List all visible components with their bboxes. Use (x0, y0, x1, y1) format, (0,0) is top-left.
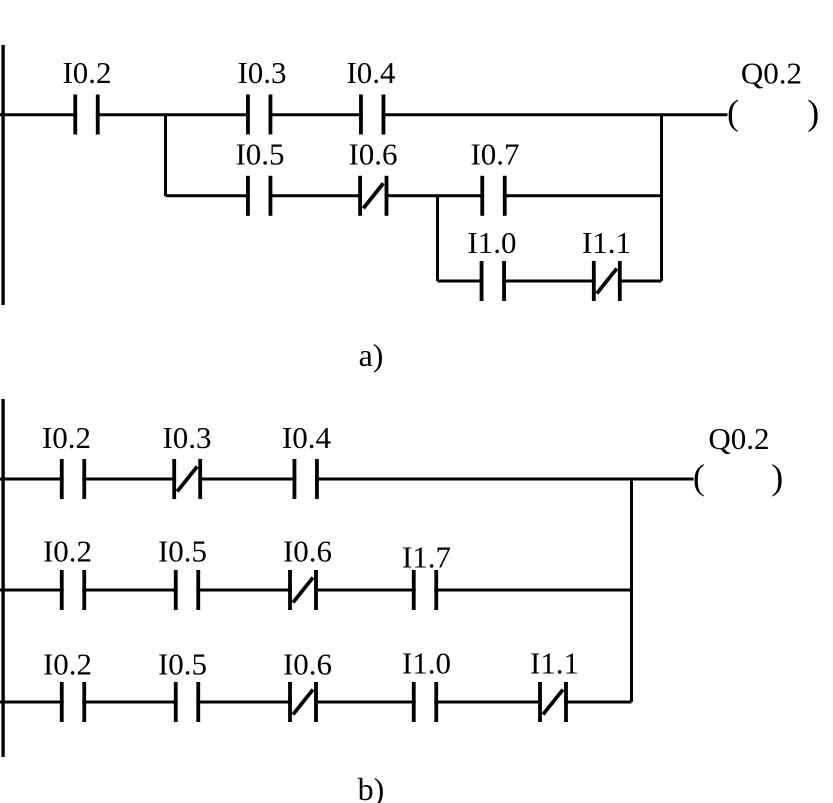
contact I0.2 rung b3 (NO) (60, 682, 86, 722)
svg-text:I0.6: I0.6 (283, 534, 332, 569)
contact I0.4 (NO) (359, 95, 385, 135)
svg-text:I1.1: I1.1 (530, 646, 579, 681)
svg-text:(: ( (727, 92, 739, 132)
wire right branch join (x661.5) (660, 115, 663, 282)
contact I0.6 (NC) (358, 176, 388, 216)
contact I1.1 (NC) (592, 261, 622, 301)
contact I0.2 rung b2 (NO) (60, 570, 86, 610)
svg-text:I0.3: I0.3 (237, 55, 286, 90)
wire branch a2 (166, 194, 662, 197)
svg-text:I0.6: I0.6 (348, 137, 397, 172)
svg-text:Q0.2: Q0.2 (741, 56, 802, 91)
contact I0.5 rung b3 (NO) (174, 682, 200, 722)
contact I1.1 rung b3 (NC) (538, 682, 568, 722)
wire branch a3 (438, 280, 662, 283)
svg-text:I0.7: I0.7 (470, 137, 519, 172)
svg-text:I0.4: I0.4 (346, 55, 396, 90)
contact I1.7 rung b2 (NO) (412, 570, 438, 610)
contact I0.5 rung b2 (NO) (174, 570, 200, 610)
contact I0.6 rung b2 (NC) (288, 570, 318, 610)
left power rail (diagram a) (1, 45, 4, 305)
svg-text:I1.0: I1.0 (467, 225, 516, 260)
contact I1.0 rung b3 (NO) (412, 682, 438, 722)
svg-text:I0.6: I0.6 (283, 647, 332, 682)
svg-text:I0.5: I0.5 (158, 647, 207, 682)
svg-text:I0.4: I0.4 (282, 420, 332, 455)
svg-text:I0.3: I0.3 (162, 420, 211, 455)
wire rung b1 (0, 478, 694, 481)
svg-text:Q0.2: Q0.2 (708, 421, 769, 456)
wire branch drop at node A (x165.5) (164, 115, 167, 197)
contact I1.0 (NO) (480, 261, 506, 301)
svg-text:): ) (807, 92, 819, 132)
svg-text:I1.1: I1.1 (582, 225, 631, 260)
wire rung b2 (0, 589, 632, 592)
contact I0.7 (NO) (480, 176, 506, 216)
svg-text:I0.2: I0.2 (43, 534, 92, 569)
wire rung a1 (0, 113, 728, 116)
contact I0.5 (NO) (246, 176, 272, 216)
svg-text:I0.2: I0.2 (43, 647, 92, 682)
svg-text:a): a) (359, 337, 384, 373)
svg-text:I1.0: I1.0 (402, 646, 451, 681)
contact I0.4 rung b1 (NO) (293, 459, 319, 499)
svg-text:b): b) (358, 771, 385, 803)
svg-text:(: ( (693, 457, 705, 497)
svg-text:I1.7: I1.7 (402, 540, 451, 575)
wire rung b3 (0, 701, 632, 704)
svg-text:): ) (771, 457, 783, 497)
svg-text:I0.2: I0.2 (62, 55, 111, 90)
contact I0.3 (NO) (246, 95, 272, 135)
svg-text:I0.5: I0.5 (158, 534, 207, 569)
wire mid branch drop (x437.5) (436, 196, 439, 281)
contact I0.6 rung b3 (NC) (288, 682, 318, 722)
wire right join (x631.5) (630, 479, 633, 702)
left power rail (diagram b) (1, 399, 4, 757)
contact I0.3 rung b1 (NC) (172, 459, 202, 499)
svg-text:I0.5: I0.5 (235, 137, 284, 172)
contact I0.2 rung b1 (NO) (60, 459, 86, 499)
contact I0.2 (NO) (73, 95, 99, 135)
svg-text:I0.2: I0.2 (42, 420, 91, 455)
